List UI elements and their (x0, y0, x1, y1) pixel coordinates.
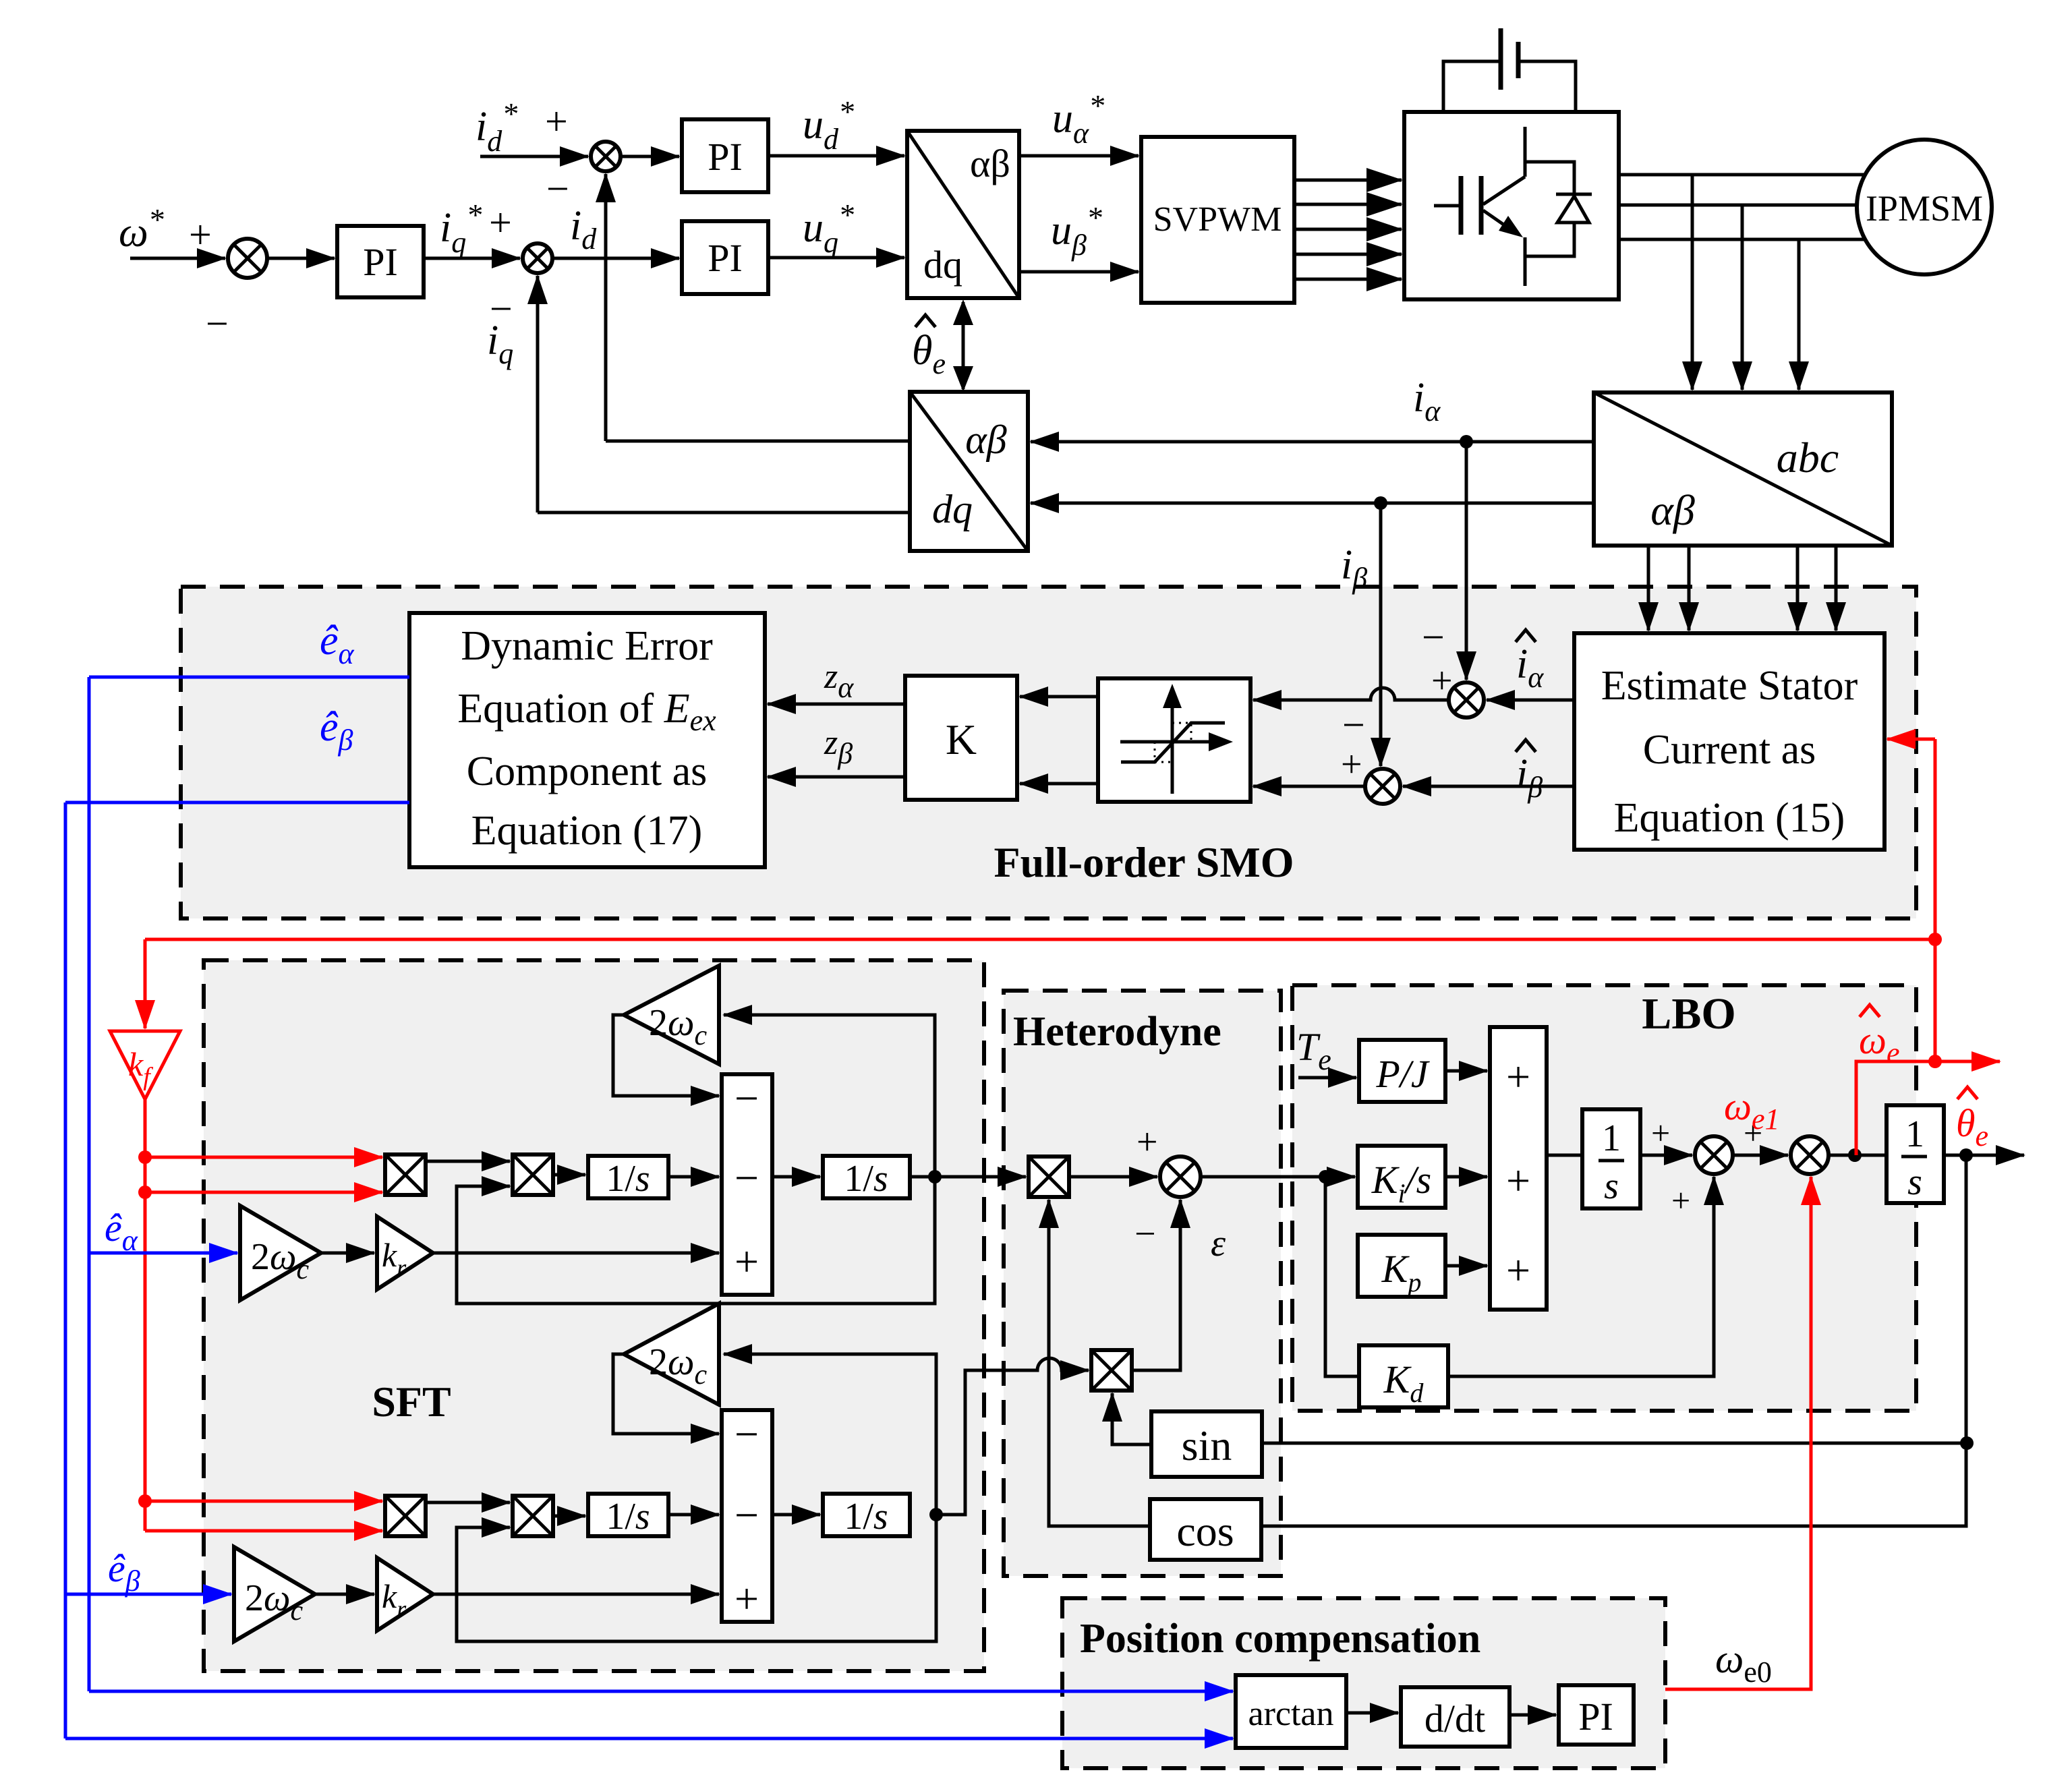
wire phase b measurement drop (1741, 205, 1744, 390)
multiplier heterodyne sin path (1091, 1350, 1132, 1391)
wire red omega_e output arrow (1935, 1060, 2000, 1063)
multiplier heterodyne cos path (1029, 1157, 1069, 1197)
svg-text:+: + (1136, 1121, 1158, 1163)
summing junction epsilon (1160, 1157, 1201, 1197)
wire arctan to ddt (1346, 1712, 1398, 1715)
wire Kp to plus box (1445, 1264, 1487, 1268)
gain 2wc input triangle beta (234, 1547, 315, 1641)
wire blue e_beta to arctan (65, 1737, 1233, 1741)
multiplier box beta 2 (513, 1496, 553, 1536)
sum rectangle alpha channel (722, 1074, 772, 1295)
wire i_beta down to error sum (1379, 503, 1383, 766)
wire blue e_alpha vertical rail (88, 677, 91, 1691)
wire 2wc to kr alpha (321, 1252, 374, 1255)
wire beta feedback to mult2 (457, 1515, 936, 1641)
svg-text:ε: ε (1211, 1223, 1226, 1264)
svg-text:Equation (15): Equation (15) (1614, 795, 1845, 841)
svg-text:Position compensation: Position compensation (1080, 1616, 1480, 1662)
wire estimated i_beta to sum (1403, 785, 1574, 788)
wire omega sum2 output to integrator (1829, 1154, 1887, 1157)
arctan box (1236, 1675, 1346, 1748)
svg-text:K: K (946, 715, 977, 763)
svg-text:Full-order SMO: Full-order SMO (994, 838, 1294, 886)
svg-text:+: + (545, 99, 568, 144)
svg-text:dq: dq (932, 487, 973, 531)
svg-text:+: + (189, 212, 212, 257)
integrator 1/s beta second (823, 1494, 910, 1536)
wire alpha output to heterodyne (910, 1175, 1026, 1179)
SVPWM box (1141, 137, 1294, 303)
gain 2wc feedback triangle beta (624, 1304, 719, 1405)
wire red into beta multiplier upper (145, 1500, 382, 1503)
svg-text:abc: abc (1777, 434, 1839, 481)
wire kr to sum rect alpha plus (433, 1252, 719, 1255)
integrator 1/s alpha first (588, 1156, 668, 1198)
wire id* input (480, 155, 588, 158)
wire blue e_beta into SFT gain (65, 1593, 231, 1596)
svg-text:LBO: LBO (1642, 989, 1735, 1039)
svg-text:−: − (735, 1410, 759, 1458)
wire red kf output rail down (144, 1099, 147, 1531)
svg-text:arctan: arctan (1248, 1695, 1333, 1733)
plus summation rectangle LBO (1490, 1027, 1547, 1310)
Position compensation dashed region (1062, 1598, 1665, 1768)
wire z_beta K to dynamic box (768, 776, 905, 779)
svg-text:dq: dq (923, 243, 962, 287)
wire beta mult2 to integrator (553, 1515, 585, 1518)
wire phase a measurement drop (1691, 175, 1694, 390)
summing junction q current (523, 243, 552, 273)
inverter box (1404, 112, 1619, 299)
wire blue e_alpha to arctan (89, 1690, 1233, 1693)
svg-text:Component as: Component as (467, 749, 707, 794)
summing junction i_beta error (1365, 769, 1400, 804)
wire saturation to K lower (1020, 782, 1098, 786)
svg-text:Equation (17): Equation (17) (471, 808, 703, 854)
svg-text:+: + (735, 1575, 759, 1623)
svg-text:−: − (735, 1154, 759, 1202)
wire 2wc output to sum rect alpha minus (613, 1015, 719, 1096)
wire current sampling into estimate box 2 (1688, 546, 1691, 631)
wire alpha feedback up to 2wc (724, 1015, 935, 1177)
svg-text:+: + (1671, 1181, 1690, 1219)
wire speed sum to PI (267, 257, 335, 260)
node alpha channel output (928, 1170, 942, 1183)
wire integrator to omega sum 1 (1640, 1154, 1692, 1157)
svg-text:s: s (1604, 1165, 1619, 1207)
wire id feedback up arrow (604, 174, 608, 441)
wire alpha feedback to mult2 (457, 1177, 935, 1304)
PI d-axis current controller box (682, 119, 768, 192)
wire d junction to PI d (621, 155, 679, 158)
wire 1/s to sum rect beta (668, 1513, 719, 1517)
wire alpha mult1 to mult2 (426, 1160, 510, 1163)
theta_e double arrow between transforms (962, 302, 965, 389)
wire theta_e down to sin cos (1261, 1155, 1966, 1526)
node red omega_e junction (1928, 1055, 1942, 1068)
svg-text:IPMSM: IPMSM (1866, 188, 1983, 229)
node omega_e branch (1848, 1148, 1862, 1162)
svg-text:PI: PI (708, 236, 743, 280)
node beta channel output (929, 1508, 943, 1521)
svg-text:1/s: 1/s (606, 1496, 650, 1538)
wire i_beta feedback to dq transform (1031, 502, 1594, 505)
wire cos feedback to het mult1 (1049, 1200, 1150, 1526)
SFT dashed region (204, 960, 984, 1671)
wire i_alpha down to error sum (1465, 442, 1468, 680)
sum rectangle beta channel (722, 1410, 772, 1622)
summing junction i_alpha error (1449, 682, 1484, 718)
PI position box (1559, 1685, 1634, 1745)
PI q-axis current controller box (682, 221, 768, 294)
dq to alpha-beta transform box (907, 131, 1019, 298)
d/dt box (1401, 1687, 1509, 1747)
wire PI d to dq transform (768, 154, 904, 158)
wire red into beta multiplier lower (145, 1529, 382, 1533)
alpha-beta to dq transform box lower (910, 392, 1028, 551)
wire blue e_alpha into SFT gain (89, 1252, 237, 1255)
wire 1/s to sum rect alpha (668, 1175, 719, 1179)
wire Kd to omega sum 1 (1448, 1177, 1714, 1376)
svg-text:cos: cos (1176, 1507, 1234, 1555)
wire i_alpha error sum to saturation with hop (1253, 688, 1447, 700)
wire z_alpha K to dynamic box (768, 703, 905, 706)
svg-text:PI: PI (1578, 1695, 1613, 1738)
summing junction speed loop (228, 239, 267, 278)
gain Kp box (1358, 1235, 1445, 1297)
wire beta mult1 to mult2 (426, 1501, 510, 1504)
svg-text:1/s: 1/s (844, 1496, 888, 1538)
IGBT switch symbol inside inverter (1434, 127, 1574, 286)
three phase wires inverter to motor (1619, 173, 1929, 177)
wire het mult2 to epsilon sum (1132, 1200, 1180, 1370)
gain K box (905, 676, 1017, 800)
svg-text:+: + (1506, 1246, 1530, 1294)
wire blue e_beta vertical rail (64, 802, 67, 1738)
multiplier box alpha 1 (385, 1154, 426, 1195)
node theta to sin (1960, 1436, 1974, 1450)
svg-text:Heterodyne: Heterodyne (1013, 1009, 1221, 1055)
wire branch down to Kd (1325, 1177, 1359, 1376)
wire alpha mult2 to integrator (553, 1173, 585, 1177)
wire theta_e output arrow (1944, 1154, 2024, 1157)
svg-text:+: + (1506, 1157, 1530, 1204)
svg-text:SFT: SFT (372, 1378, 451, 1426)
wire sum rect to second integrator alpha (772, 1175, 820, 1179)
svg-text:−: − (1134, 1213, 1156, 1255)
gain P/J box (1359, 1040, 1445, 1102)
summing junction omega 2 (1791, 1136, 1829, 1174)
wire current sampling into estimate box 3 (1796, 546, 1800, 631)
integrator 1/s LBO (1582, 1109, 1640, 1208)
wire epsilon sum output to LBO (1201, 1175, 1355, 1179)
wire 2wc to kr beta (315, 1593, 374, 1596)
svg-text:−: − (1422, 615, 1445, 660)
wire het mult1 to epsilon sum (1069, 1175, 1157, 1179)
svg-text:+: + (1651, 1114, 1670, 1152)
node LBO input branch (1319, 1170, 1332, 1183)
wire kr to sum rect beta plus (433, 1593, 719, 1596)
wire sum rect to second integrator beta (772, 1513, 820, 1517)
Full-order SMO dashed region (181, 587, 1916, 918)
gain Ki/s box (1358, 1146, 1445, 1208)
gain kr triangle alpha (377, 1217, 433, 1289)
wire estimated i_alpha to sum (1487, 699, 1574, 702)
wire PI to q current junction (424, 257, 520, 260)
gain kf triangle red (110, 1031, 180, 1099)
node i_alpha branch (1460, 435, 1473, 448)
wire red omega_e0 to sum (1665, 1177, 1811, 1689)
battery DC link (1443, 28, 1576, 112)
wire red down into kf gain (144, 939, 147, 1028)
svg-text:Equation of Eex: Equation of Eex (457, 686, 716, 737)
wire current sampling into estimate box 4 (1835, 546, 1838, 631)
wire e_beta hat to left rail (65, 801, 409, 805)
wire 2wc output to sum rect beta minus (613, 1354, 719, 1434)
svg-text:αβ: αβ (1650, 486, 1695, 534)
PWM gate signal wires to inverter (1294, 179, 1402, 182)
svg-text:αβ: αβ (970, 142, 1010, 185)
svg-text:d/dt: d/dt (1424, 1697, 1485, 1741)
wire red omega_e horizontal rail (145, 938, 1935, 941)
integrator 1/s beta first (588, 1494, 668, 1536)
node red rail branch (1928, 933, 1942, 946)
sin box (1151, 1411, 1262, 1477)
wire q junction to PI q (552, 257, 679, 260)
wire PI q to dq transform (768, 256, 904, 260)
wire red omega_e vertical rail right (1934, 739, 1937, 1061)
svg-text:1/s: 1/s (844, 1158, 888, 1200)
summing junction omega 1 (1695, 1136, 1733, 1174)
svg-text:−: − (546, 167, 569, 211)
svg-text:Current as: Current as (1643, 727, 1816, 773)
wire red into alpha multiplier upper (145, 1156, 382, 1159)
svg-text:SVPWM: SVPWM (1153, 200, 1282, 239)
svg-text:1: 1 (1602, 1117, 1621, 1159)
svg-text:s: s (1907, 1161, 1922, 1203)
wire iq feedback up arrow (536, 276, 540, 513)
node i_beta branch (1374, 496, 1387, 510)
wire omega* input (130, 257, 225, 260)
Estimate Stator Current box (1574, 633, 1884, 850)
node red to SFT beta channel a (138, 1494, 152, 1508)
wire i_alpha feedback to dq transform (1031, 440, 1594, 444)
svg-text:+: + (1341, 744, 1362, 786)
svg-text:−: − (1342, 703, 1365, 747)
wire red into alpha multiplier lower (145, 1191, 382, 1194)
wire u_beta* to SVPWM (1019, 270, 1139, 274)
IPMSM motor circle (1857, 140, 1992, 274)
wire plus box to integrator LBO (1547, 1154, 1582, 1157)
integrator 1/s alpha second (823, 1156, 910, 1198)
Dynamic Error Equation box (409, 613, 765, 867)
svg-text:αβ: αβ (965, 417, 1006, 462)
wire sin feedback to het mult2 (1112, 1393, 1151, 1444)
wire i_beta error sum to saturation (1253, 785, 1364, 788)
svg-text:−: − (735, 1491, 759, 1539)
gain Kd box (1359, 1345, 1448, 1407)
cos box (1150, 1499, 1261, 1560)
wire ddt to PI (1509, 1714, 1556, 1717)
gain 2wc feedback triangle alpha (624, 966, 719, 1064)
node theta_e branch (1959, 1148, 1973, 1162)
wire phase c measurement drop (1797, 239, 1801, 390)
svg-text:−: − (206, 301, 229, 346)
wire saturation to K upper (1020, 695, 1098, 699)
gain 2wc input triangle alpha (240, 1206, 321, 1300)
integrator 1/s position (1887, 1105, 1944, 1203)
svg-text:+: + (489, 200, 512, 245)
wire e_alpha hat to left rail (89, 676, 409, 679)
wire red omega_e up from node (1856, 1061, 1935, 1155)
node red to SFT alpha channel a (138, 1150, 152, 1164)
svg-text:−: − (735, 1074, 759, 1122)
svg-text:PI: PI (708, 135, 743, 179)
wire iq output to loop (538, 511, 910, 515)
svg-text:1: 1 (1905, 1113, 1924, 1155)
svg-text:1/s: 1/s (606, 1158, 650, 1200)
wire beta output to heterodyne mult with hop (936, 1358, 1089, 1515)
saturation sliding-mode switching block (1098, 678, 1250, 802)
freewheel diode inside inverter (1556, 194, 1592, 223)
wire Te into P/J (1298, 1076, 1356, 1080)
PI speed controller box (337, 226, 424, 297)
wire omega sum1 to sum2 (1733, 1154, 1788, 1157)
multiplier box beta 1 (385, 1496, 426, 1536)
abc to alpha-beta transform box (1594, 392, 1892, 546)
summing junction d current (591, 142, 621, 171)
gain kr triangle beta (377, 1558, 433, 1631)
svg-text:+: + (735, 1237, 759, 1285)
wire Ki/s to plus box (1445, 1175, 1487, 1179)
svg-text:PI: PI (363, 240, 398, 284)
node red to SFT alpha channel b (138, 1186, 152, 1199)
svg-text:+: + (1506, 1053, 1530, 1101)
Heterodyne dashed region (1004, 991, 1281, 1576)
multiplier box alpha 2 (513, 1154, 553, 1195)
wire beta feedback up to 2wc (724, 1354, 936, 1515)
svg-text:Dynamic Error: Dynamic Error (461, 623, 713, 669)
svg-text:P/J: P/J (1375, 1052, 1431, 1096)
svg-text:sin: sin (1182, 1422, 1232, 1469)
wire theta to sin box (1262, 1442, 1967, 1445)
wire current sampling into estimate box 1 (1647, 546, 1650, 631)
LBO dashed region (1292, 985, 1916, 1411)
wire omega feedback into estimate box red (1887, 738, 1935, 741)
wire u_alpha* to SVPWM (1019, 154, 1139, 158)
wire id output to loop (606, 440, 910, 443)
svg-text:Estimate Stator: Estimate Stator (1601, 663, 1858, 709)
wire P/J to plus box (1445, 1070, 1487, 1073)
